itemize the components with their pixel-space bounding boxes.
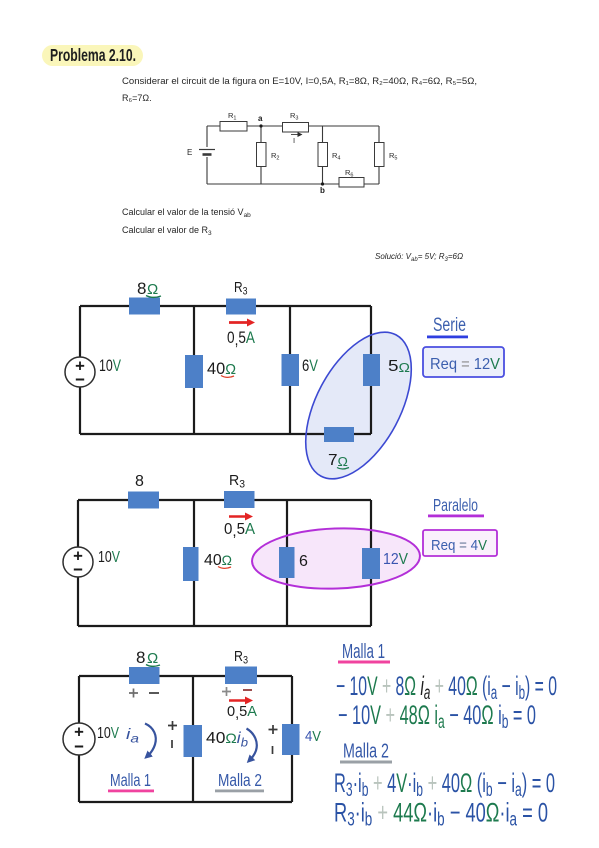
label 8 ohm c3 (136, 648, 160, 667)
svg-text:R3: R3 (229, 472, 245, 491)
label 40 ohm c1 (207, 359, 236, 378)
svg-text:Calcular el valor de la tensió: Calcular el valor de la tensió Vab (122, 207, 251, 219)
wire c2 bottom (78, 625, 371, 627)
current arrow 0,5A c3 (229, 699, 247, 702)
svg-text:0,5A: 0,5A (227, 703, 257, 722)
label R3 c1 (234, 279, 248, 298)
resistor 8 ohm c3 (129, 667, 160, 684)
svg-text:10V: 10V (99, 356, 121, 375)
svg-text:Req = 12V: Req = 12V (430, 356, 500, 373)
resistor 12V c2 (362, 548, 380, 579)
svg-text:10V: 10V (97, 725, 119, 742)
current arrow 0,5A c2 (229, 515, 247, 518)
label R5 (389, 151, 397, 162)
ellipse serie highlight fill (284, 315, 433, 496)
svg-text:Malla 1: Malla 1 (342, 640, 385, 663)
svg-text:R3: R3 (234, 279, 248, 298)
svg-text:5Ω: 5Ω (388, 358, 410, 375)
resistor R4 (318, 143, 328, 167)
wire c3 middle branch (192, 676, 194, 802)
svg-text:7Ω: 7Ω (328, 452, 348, 469)
svg-text:R₆=7Ω.: R₆=7Ω. (122, 93, 152, 103)
resistor R6 (339, 178, 364, 188)
ellipse paralelo highlight stroke (251, 526, 421, 592)
label R3 c3 (234, 648, 248, 667)
resistor 4V c3 (282, 724, 300, 755)
svg-text:Malla 2: Malla 2 (343, 739, 389, 762)
wire c1 left below source (79, 387, 81, 434)
solution line (375, 252, 463, 263)
polarity marks left of 40 ohm (168, 721, 177, 748)
svg-text:Paralelo: Paralelo (433, 495, 478, 516)
wire c1 top (80, 305, 371, 307)
printed circuit: outer loop wires (207, 126, 379, 184)
battery E (199, 150, 215, 155)
wire c3 left below source (78, 755, 80, 802)
label 0,5A c1 (227, 328, 256, 349)
svg-text:8: 8 (136, 648, 145, 667)
equation mesh2 line1 (334, 768, 555, 801)
svg-text:4V: 4V (305, 728, 321, 745)
svg-text:40Ωib: 40Ωib (206, 730, 248, 750)
resistor 40 ohm c3 (184, 725, 203, 757)
label 5 ohm c1 (388, 358, 410, 375)
equation mesh2 line2 (334, 797, 548, 830)
label Paralelo (428, 495, 484, 518)
ellipse serie highlight stroke (284, 315, 433, 496)
resistor 40 ohm c1 (185, 355, 203, 388)
label 0,5A c3 (227, 703, 257, 722)
label ia c3 (126, 726, 139, 746)
resistor 8 ohm c1 (129, 298, 160, 315)
wire c2 left above source (77, 500, 79, 547)
resistor 6V c1 (282, 354, 300, 386)
wire c1 branch 40ohm (193, 306, 195, 434)
label 4V c3 (305, 728, 321, 745)
equations heading Malla 2 (340, 739, 392, 763)
wire c3 top (79, 675, 292, 677)
resistor R1 (220, 122, 247, 132)
node a (258, 114, 263, 128)
label 6V c1 (302, 356, 319, 375)
svg-text:6: 6 (299, 553, 308, 570)
label 10V c2 (98, 549, 120, 566)
wire left upper (above battery) (206, 126, 208, 147)
current arrow 0,5A c1 (229, 321, 249, 324)
wire R2 branch (260, 126, 262, 184)
svg-text:8: 8 (135, 473, 144, 490)
wire left lower (below battery) (206, 157, 208, 184)
circuit 3: mesh analysis (79, 676, 292, 802)
voltage source 10V c3 (63, 723, 95, 755)
svg-text:Considerar el circuit de la fi: Considerar el circuit de la figura on E=… (122, 76, 477, 86)
resistor R3 c1 (226, 299, 256, 315)
box Req = 12V (423, 347, 504, 377)
svg-text:− 10V + 48Ω ia − 40Ω ib = 0: − 10V + 48Ω ia − 40Ω ib = 0 (338, 700, 536, 733)
label 10V c3 (97, 725, 119, 742)
node b (320, 182, 325, 195)
label 8 c2 (135, 473, 144, 490)
label 6 c2 (299, 553, 308, 570)
wire R4 branch (322, 126, 324, 184)
svg-text:ia: ia (126, 726, 139, 746)
label R3 (290, 111, 298, 122)
svg-text:R3: R3 (234, 648, 248, 667)
wire c2 branch 6 (286, 500, 288, 626)
svg-text:R4: R4 (332, 151, 340, 162)
resistor R3 (283, 123, 309, 133)
label 40 ohm c2 (204, 552, 232, 569)
resistor 7 ohm c1 (324, 427, 354, 442)
wire top (207, 125, 379, 127)
equation mesh1 line2 (338, 700, 536, 733)
polarity marks under 8 ohm (129, 689, 159, 698)
label 0,5A c2 (224, 521, 255, 540)
svg-text:R3·ib + 4V·ib + 40Ω (ib − ia): R3·ib + 4V·ib + 40Ω (ib − ia) = 0 (334, 768, 555, 801)
svg-text:40Ω: 40Ω (204, 552, 232, 569)
wire c2 right (370, 500, 372, 626)
svg-text:12V: 12V (383, 551, 408, 568)
resistor R3 c2 (224, 491, 255, 508)
svg-text:Ω: Ω (147, 650, 158, 667)
wire c1 bottom (80, 433, 371, 435)
title highlight pill (42, 45, 143, 66)
svg-text:b: b (320, 186, 325, 195)
svg-text:Malla 2: Malla 2 (218, 770, 262, 790)
label 8 ohm c1 (137, 279, 161, 298)
wire c1 right (370, 306, 372, 434)
wire c2 left below source (77, 577, 79, 626)
mesh current arrow ib (247, 729, 257, 760)
problem statement line 2 (122, 93, 152, 103)
svg-text:R3·ib + 44Ω·ib − 40Ω·ia = 0: R3·ib + 44Ω·ib − 40Ω·ia = 0 (334, 797, 548, 830)
equations heading Malla 1 (338, 640, 390, 664)
svg-text:8: 8 (137, 279, 146, 298)
resistor 6 c2 (279, 547, 295, 578)
problem statement line 1 (122, 76, 477, 86)
svg-text:Malla 1: Malla 1 (110, 770, 151, 790)
label R2 (271, 151, 279, 162)
resistor 8 c2 (128, 492, 159, 509)
wire bottom (207, 183, 379, 185)
voltage source 10V c2 (63, 547, 93, 577)
polarity marks under R3 (222, 687, 252, 696)
wire c3 bottom (79, 801, 292, 803)
svg-text:0,5A: 0,5A (224, 521, 255, 540)
resistor R3 c3 (225, 667, 257, 685)
svg-text:Calcular el valor de R3: Calcular el valor de R3 (122, 225, 212, 237)
label R4 (332, 151, 340, 162)
resistor 40 c2 (183, 547, 199, 581)
wire c1 left above source (79, 306, 81, 357)
box Req = 4V (423, 530, 497, 556)
svg-text:R3: R3 (290, 111, 298, 122)
svg-text:6V: 6V (302, 356, 319, 375)
label 7 ohm c1 (328, 452, 349, 469)
polarity marks left of 4V (269, 725, 278, 754)
equation mesh1 line1 (336, 671, 557, 704)
question line 2 (122, 225, 212, 237)
svg-text:R1: R1 (228, 111, 236, 122)
wire right (378, 126, 380, 184)
svg-text:a: a (258, 114, 263, 123)
svg-text:10V: 10V (98, 549, 120, 566)
label Serie (427, 314, 468, 339)
title text Problema 2.10. (50, 45, 136, 65)
svg-text:R6: R6 (345, 168, 353, 179)
svg-text:Problema 2.10.: Problema 2.10. (50, 45, 136, 65)
label 12V c2 (383, 551, 408, 568)
wire c3 right (291, 676, 293, 802)
resistor R5 (375, 143, 385, 167)
mesh current arrow ia (145, 724, 156, 756)
wire c2 top (78, 499, 371, 501)
wire c3 left above source (78, 676, 80, 723)
svg-text:Ω: Ω (147, 281, 158, 298)
wire c2 branch 40ohm (193, 500, 195, 626)
battery label E (187, 148, 192, 157)
wire c1 branch 6V (289, 306, 291, 434)
label 10V c1 (99, 356, 121, 375)
svg-text:R5: R5 (389, 151, 397, 162)
svg-text:R2: R2 (271, 151, 279, 162)
svg-text:Solució: Vab= 5V; R3=6Ω: Solució: Vab= 5V; R3=6Ω (375, 252, 463, 263)
label R3 c2 (229, 472, 245, 491)
voltage source 10V c1 (65, 357, 95, 387)
label R6 (345, 168, 353, 179)
ellipse paralelo highlight fill (251, 526, 421, 592)
question line 1 (122, 207, 251, 219)
resistor R2 (257, 143, 267, 167)
label R1 (228, 111, 236, 122)
label 40 ohm ib c3 (206, 730, 248, 750)
label Malla 2 c3 (215, 770, 264, 792)
svg-text:Serie: Serie (433, 314, 466, 336)
current arrow I (291, 135, 299, 146)
svg-text:I: I (293, 136, 295, 145)
label Malla 1 c3 (108, 770, 154, 792)
resistor 5 ohm c1 (363, 354, 380, 386)
svg-text:0,5A: 0,5A (227, 328, 256, 349)
svg-text:Req = 4V: Req = 4V (431, 537, 487, 554)
svg-text:E: E (187, 148, 192, 157)
